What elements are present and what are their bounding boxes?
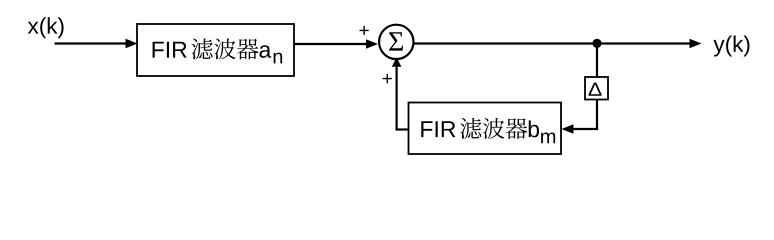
wire summer to output bbox=[414, 42, 692, 44]
label subscript m bbox=[541, 133, 555, 144]
junction dot bbox=[592, 39, 601, 48]
arrowhead into FIR an bbox=[126, 39, 138, 49]
wire delay down bbox=[596, 100, 598, 130]
wire FIR an to summer bbox=[294, 43, 368, 45]
wire junction down to delay bbox=[596, 44, 598, 78]
plus sign bottom bbox=[383, 74, 392, 83]
label a bbox=[259, 45, 271, 58]
wire right angle into FIR bm bbox=[572, 128, 598, 130]
summer node sigma circle bbox=[379, 25, 413, 59]
arrowhead to y(k) bbox=[690, 39, 702, 49]
arrowhead into summer bottom bbox=[392, 57, 402, 67]
arrowhead into summer left bbox=[366, 39, 378, 49]
arrowhead into FIR bm bbox=[562, 124, 574, 134]
wire feedback up to summer bbox=[396, 65, 398, 131]
label FIR an bbox=[153, 42, 187, 58]
label b bbox=[529, 120, 539, 137]
delay block bbox=[585, 77, 608, 100]
node y(k) output label bbox=[713, 35, 749, 56]
label subscript n bbox=[274, 53, 282, 64]
label CJK lv-bo-qi box2 bbox=[460, 118, 527, 139]
node x(k) input label bbox=[28, 17, 64, 38]
delta glyph bbox=[589, 83, 602, 96]
wire input to FIR an bbox=[55, 42, 128, 44]
wire FIR bm out left bbox=[397, 128, 409, 130]
FIR filter block an bbox=[137, 24, 294, 76]
label FIR bm bbox=[421, 121, 455, 137]
sigma glyph bbox=[389, 32, 403, 50]
plus sign top bbox=[360, 26, 369, 35]
label CJK lv-bo-qi box1 bbox=[191, 38, 258, 59]
FIR bm block bbox=[409, 103, 562, 155]
